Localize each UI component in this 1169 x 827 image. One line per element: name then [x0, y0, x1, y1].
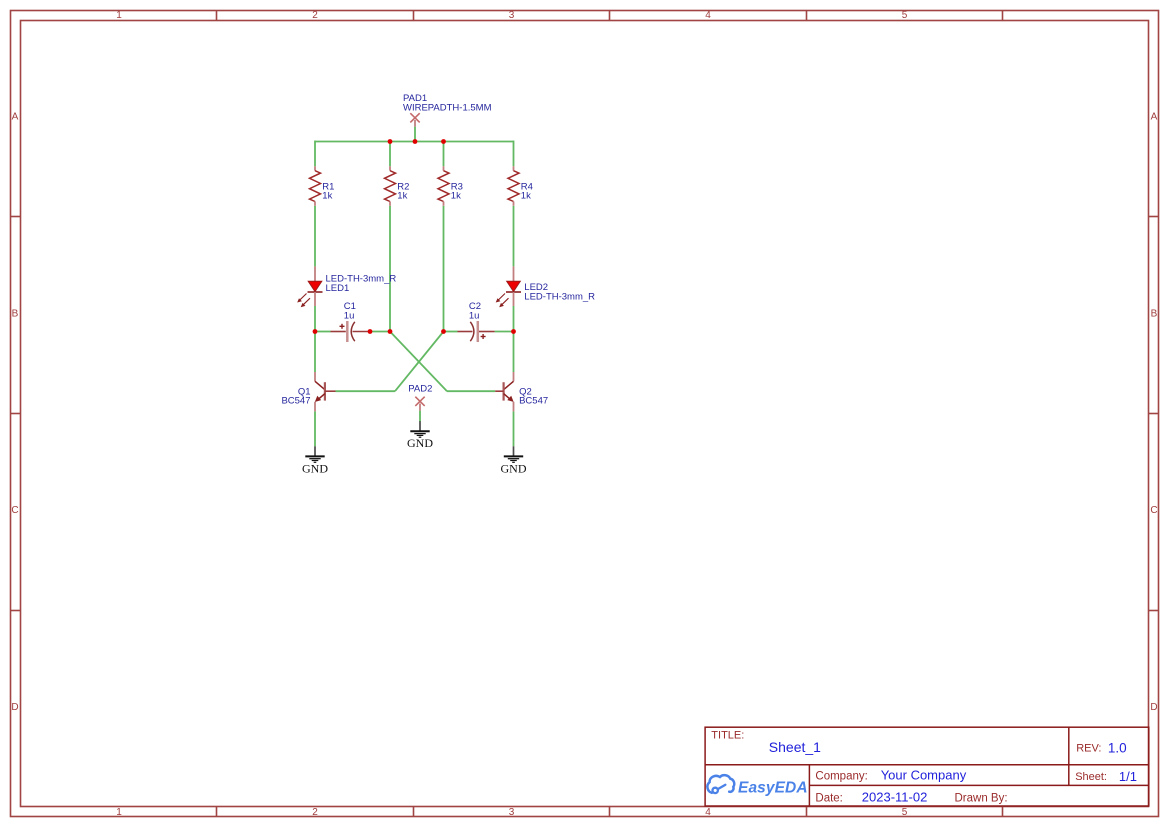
- svg-text:5: 5: [902, 807, 908, 818]
- wire: R4 bottom to LED2 anode: [513, 206, 515, 267]
- svg-text:GND: GND: [302, 461, 328, 475]
- LED LED2: [496, 266, 595, 307]
- svg-text:Company:: Company:: [815, 771, 867, 783]
- svg-text:1k: 1k: [521, 191, 531, 202]
- svg-text:Date:: Date:: [815, 793, 843, 805]
- resistor R4: [508, 166, 533, 206]
- svg-text:Your Company: Your Company: [881, 768, 967, 783]
- wire: Q1 emitter to GND1: [314, 411, 316, 446]
- pad PAD1: [403, 93, 492, 127]
- junction node A (R2 bottom / cross wire): [388, 329, 393, 334]
- wire: Q2 emitter to GND3: [513, 411, 515, 446]
- junction at bus / R2: [388, 139, 393, 144]
- svg-text:D: D: [11, 702, 18, 713]
- capacitor C2: [458, 301, 495, 342]
- wire: R1 bottom to LED1 anode: [314, 206, 316, 267]
- title block values: [769, 739, 1137, 805]
- title block: [705, 727, 1149, 806]
- wire: bus to R1 top: [314, 141, 316, 167]
- svg-text:BC547: BC547: [519, 395, 548, 406]
- wire: main bus: [315, 141, 514, 143]
- wire: bus to R2 top: [389, 142, 391, 167]
- wire: Q1 collector riser: [314, 332, 316, 373]
- svg-text:Sheet:: Sheet:: [1075, 771, 1107, 783]
- wire: cross diagonal right-to-left: [395, 332, 444, 392]
- transistor Q1: [281, 372, 335, 411]
- svg-text:C: C: [11, 505, 18, 516]
- svg-text:Drawn By:: Drawn By:: [955, 793, 1008, 805]
- svg-text:4: 4: [705, 10, 711, 21]
- svg-text:1k: 1k: [397, 191, 407, 202]
- svg-text:1: 1: [116, 10, 122, 21]
- wire: PAD1 drop: [414, 127, 416, 142]
- svg-text:BC547: BC547: [281, 395, 310, 406]
- wire: LED2 cathode down: [513, 306, 515, 332]
- svg-text:PAD2: PAD2: [408, 383, 432, 394]
- svg-text:LED1: LED1: [326, 283, 350, 294]
- svg-text:3: 3: [509, 807, 515, 818]
- svg-text:LED-TH-3mm_R: LED-TH-3mm_R: [524, 291, 595, 302]
- wire: Q2 collector riser: [513, 332, 515, 373]
- LED LED1: [297, 266, 396, 307]
- junction at bus / R3: [441, 139, 446, 144]
- svg-text:3: 3: [509, 10, 515, 21]
- wire: R3 bottom to node B: [443, 206, 445, 332]
- junction node B (R3 bottom / cross wire): [441, 329, 446, 334]
- svg-text:2: 2: [312, 807, 318, 818]
- svg-text:Sheet_1: Sheet_1: [769, 739, 821, 755]
- wire: bus to R4 top: [513, 141, 515, 167]
- EasyEDA logo: [707, 775, 807, 796]
- wire: bus to R3 top: [443, 142, 445, 167]
- resistor R3: [438, 166, 463, 206]
- junction at LED1 cathode / C1 left: [313, 329, 318, 334]
- wire: LED1 cathode down: [314, 306, 316, 332]
- svg-text:A: A: [12, 112, 19, 123]
- svg-text:GND: GND: [407, 436, 433, 450]
- junction at C1 right pin: [368, 329, 373, 334]
- pad PAD2: [408, 383, 432, 410]
- svg-text:4: 4: [705, 807, 711, 818]
- svg-text:1u: 1u: [344, 311, 355, 322]
- svg-text:1k: 1k: [451, 191, 461, 202]
- svg-text:GND: GND: [501, 461, 527, 475]
- svg-text:REV:: REV:: [1076, 743, 1101, 755]
- svg-text:A: A: [1151, 112, 1158, 123]
- wire: R2 bottom to node A: [389, 206, 391, 332]
- wire: node B to C2 left lead: [444, 331, 458, 333]
- ground GND2 (PAD2): [407, 421, 433, 450]
- svg-text:1.0: 1.0: [1108, 741, 1127, 756]
- wire: cross diagonal left-to-right: [390, 332, 447, 392]
- svg-text:TITLE:: TITLE:: [711, 730, 744, 742]
- title block labels: [711, 730, 1107, 805]
- svg-text:1: 1: [116, 807, 122, 818]
- wire: PAD2 to GND: [419, 411, 421, 422]
- wire: Q1 base horizontal: [336, 390, 396, 392]
- wire: C1 left lead: [315, 331, 331, 333]
- svg-text:D: D: [1150, 702, 1157, 713]
- junction at LED2 cathode / C2 right: [511, 329, 516, 334]
- svg-text:B: B: [12, 309, 19, 320]
- svg-text:C: C: [1150, 505, 1157, 516]
- svg-text:5: 5: [902, 10, 908, 21]
- wire: Q2 base horizontal: [447, 390, 495, 392]
- ground GND1: [302, 446, 328, 475]
- capacitor C1: [331, 301, 371, 342]
- wire: C2 right lead: [495, 331, 514, 333]
- resistor R2: [385, 166, 410, 206]
- svg-text:2: 2: [312, 10, 318, 21]
- transistor Q2: [495, 372, 548, 411]
- svg-text:2023-11-02: 2023-11-02: [862, 790, 928, 805]
- svg-text:1k: 1k: [322, 191, 332, 202]
- resistor R1: [310, 166, 335, 206]
- svg-text:B: B: [1151, 309, 1158, 320]
- svg-text:1/1: 1/1: [1119, 769, 1137, 784]
- wire: C1 right lead to node A: [370, 331, 390, 333]
- junction at bus / PAD1: [413, 139, 418, 144]
- svg-text:WIREPADTH-1.5MM: WIREPADTH-1.5MM: [403, 102, 492, 113]
- ground GND3: [501, 446, 527, 475]
- svg-text:1u: 1u: [469, 311, 480, 322]
- svg-text:EasyEDA: EasyEDA: [738, 779, 808, 796]
